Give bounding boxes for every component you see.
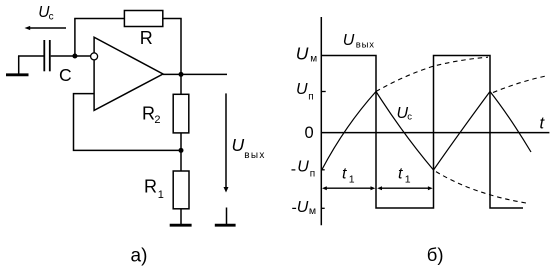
svg-text:1: 1 — [349, 174, 355, 186]
interval arrow t1 first — [322, 186, 375, 190]
label R2 — [142, 104, 161, 127]
wire ground to C — [18, 55, 44, 57]
waveform Uvyh square wave — [321, 56, 523, 209]
svg-text:U: U — [297, 199, 309, 216]
svg-text:-: - — [291, 161, 296, 178]
wire rail to resistor R — [74, 18, 124, 20]
label -Up — [291, 158, 315, 179]
waveform Uc discharging segment B — [376, 92, 434, 171]
capacitor C — [44, 40, 50, 71]
axis horizontal t — [321, 132, 549, 134]
label Up — [296, 81, 314, 102]
label Um — [296, 43, 317, 64]
svg-text:2: 2 — [154, 114, 160, 126]
wire non-inverting input — [74, 94, 182, 151]
op-amp U1 — [94, 37, 163, 110]
ground G3 (under Uvyh arrow) — [215, 208, 236, 226]
svg-text:R: R — [142, 104, 155, 124]
svg-text:U: U — [343, 32, 355, 49]
axis vertical — [320, 17, 322, 225]
svg-text:U: U — [296, 43, 309, 63]
svg-text:м: м — [309, 205, 316, 217]
svg-text:R: R — [144, 177, 157, 197]
wire R1 to ground G2 — [180, 209, 182, 224]
wire R to output column — [163, 18, 182, 20]
wire op-amp output — [163, 73, 227, 75]
resistor R1 — [173, 171, 189, 209]
arrow Uvyh output voltage — [224, 93, 229, 192]
svg-text:C: C — [59, 65, 72, 85]
node N1 (C / R / op-amp input) — [72, 54, 77, 59]
waveform Uc charging segment C — [434, 92, 491, 171]
wire node N1 up to feedback rail — [74, 19, 76, 57]
wire C to inverting input — [51, 55, 91, 57]
svg-text:а): а) — [131, 246, 148, 266]
label R1 — [144, 177, 164, 201]
label t1 first — [342, 165, 355, 185]
label Uc text — [38, 4, 53, 22]
tick Up — [321, 91, 325, 93]
wire output column vertical — [180, 19, 182, 95]
interval arrow t1 second — [377, 186, 433, 190]
svg-text:t: t — [398, 165, 403, 182]
svg-text:вых: вых — [356, 40, 375, 51]
op-amp inverting input circle — [91, 53, 98, 60]
node N2 (output) — [179, 72, 184, 77]
label Uvyh (left) — [232, 135, 266, 161]
wire R2 to node N3 — [180, 133, 182, 171]
label Uvyh (graph) — [343, 32, 375, 51]
svg-text:t: t — [342, 165, 347, 182]
svg-text:вых: вых — [244, 150, 265, 161]
node N3 (divider tap) — [179, 148, 184, 153]
svg-text:1: 1 — [405, 174, 411, 186]
svg-text:0: 0 — [305, 124, 314, 142]
ground G2 (below R1) — [170, 224, 192, 227]
svg-text:п: п — [308, 91, 313, 102]
svg-text:п: п — [310, 169, 315, 180]
resistor R — [124, 11, 162, 27]
tick -Up — [321, 169, 324, 171]
label -Um — [292, 199, 317, 217]
dashed exponential upper 2 — [493, 76, 546, 93]
svg-text:с: с — [49, 11, 54, 22]
svg-text:б): б) — [427, 244, 444, 265]
waveform Uc discharging segment D — [490, 92, 531, 153]
tick -Um — [321, 207, 324, 209]
svg-text:R: R — [140, 28, 153, 48]
dashed exponential upper 1 — [376, 57, 488, 91]
label Uc (graph) — [397, 105, 413, 122]
svg-text:U: U — [297, 158, 309, 175]
ground G1 (capacitor left) — [6, 56, 29, 75]
svg-text:с: с — [407, 111, 412, 122]
label t1 second — [398, 165, 411, 185]
label Uc arrow — [25, 26, 67, 30]
waveform Uc charging segment A — [322, 92, 376, 171]
dashed exponential lower — [436, 172, 526, 203]
svg-text:1: 1 — [158, 189, 164, 201]
svg-text:U: U — [232, 135, 245, 155]
svg-text:м: м — [310, 54, 317, 65]
resistor R2 — [173, 94, 189, 133]
svg-text:U: U — [296, 81, 308, 98]
